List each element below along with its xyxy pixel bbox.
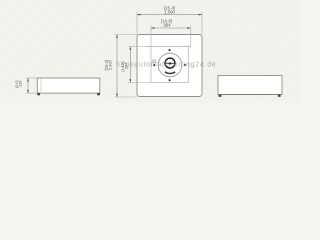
arrowhead right: [199, 14, 202, 16]
dim text inner height (rotated): [120, 61, 129, 71]
arrowhead up: [27, 78, 29, 81]
top view inner square: [151, 47, 189, 83]
svg-text:.230: .230: [19, 81, 23, 88]
dim text overall width: [164, 5, 176, 14]
extension line outer-right (top dim): [201, 12, 203, 35]
extension line bottom (side dim 1): [114, 96, 137, 98]
arrowhead down: [116, 94, 118, 97]
vertical centerline: [169, 49, 171, 78]
small index hole: [153, 60, 156, 63]
arrowhead down: [129, 79, 131, 82]
north dot: [169, 49, 171, 51]
west dot: [153, 64, 155, 66]
arrowhead down: [27, 90, 29, 93]
outer circle (bushing): [158, 53, 182, 77]
arrowhead left: [137, 14, 140, 16]
arrowhead up: [116, 35, 118, 38]
extension line bottom (left view height dim): [26, 92, 38, 94]
arrowhead left: [151, 27, 154, 29]
hatched paper background: [0, 0, 300, 103]
right view bottom edge accent: [218, 93, 282, 95]
arrowhead right: [187, 27, 190, 29]
knob ring: [165, 58, 175, 68]
svg-text:1.000: 1.000: [164, 10, 175, 15]
extension line inner-right (top dim 2): [190, 25, 192, 46]
dimension line inner height: [129, 47, 131, 83]
horizontal centerline: [156, 62, 184, 64]
south dot: [169, 79, 171, 81]
dimension line (left view height): [27, 78, 29, 93]
slot line: [164, 62, 175, 64]
top view outer body square: [137, 35, 202, 97]
inner step line of left view: [40, 78, 42, 92]
dim text overall height (rotated): [104, 60, 113, 71]
rotor cutout arc: [165, 72, 175, 74]
right foot of right view: [278, 95, 281, 97]
extension line top (side dim 1): [114, 34, 137, 36]
side view body (left elevation): [37, 78, 100, 93]
dimension line inner width: [151, 27, 191, 29]
extension line bottom (side dim 2): [128, 82, 151, 84]
extension line top (left view height dim): [26, 77, 38, 79]
side view body (right elevation): [218, 76, 282, 95]
east dot: [184, 64, 186, 66]
svg-text:.584: .584: [162, 22, 171, 27]
svg-text:hausautomatisierung24.de: hausautomatisierung24.de: [116, 62, 217, 69]
arrowhead up: [129, 47, 131, 50]
left foot of left view: [37, 93, 40, 95]
extension line outer-left (top dim): [136, 12, 138, 35]
dim text inner width: [161, 19, 172, 28]
extension line top (side dim 2): [128, 46, 151, 48]
right foot of left view: [97, 93, 100, 95]
left foot of right view: [219, 95, 222, 97]
center dot: [169, 62, 171, 64]
dim text left view height: [14, 80, 22, 88]
inner square top edge overshoot: [147, 46, 192, 48]
dimension line overall width: [137, 14, 202, 16]
svg-text:1.000: 1.000: [108, 60, 113, 71]
dimension line overall height: [116, 35, 118, 98]
extension line inner-left (top dim 2): [150, 25, 152, 46]
